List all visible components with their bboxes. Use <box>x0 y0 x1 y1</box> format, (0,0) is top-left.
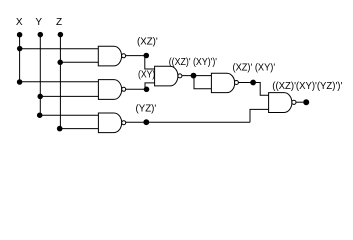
nand gate G4 second level <box>155 66 178 86</box>
node final output dot <box>303 99 309 105</box>
junction dot (XY)' <box>144 87 150 93</box>
junction dot Y/G2 <box>37 94 43 100</box>
wire X to gate G1 input A <box>20 48 99 50</box>
wire G5 output down into gate G6 input A <box>260 83 268 96</box>
wire X vertical <box>19 35 21 82</box>
wire Z vertical <box>59 35 61 129</box>
svg-text:Y: Y <box>35 17 42 28</box>
wire Z to gate G3 input B <box>60 128 98 130</box>
junction dot X/G2 <box>17 79 23 85</box>
wire (YZ)' up into gate G6 input B <box>250 109 269 122</box>
node Y terminal dot <box>38 32 44 38</box>
wire G5 output <box>238 82 260 84</box>
nand gate G6 third level <box>269 93 292 113</box>
svg-text:(XZ)': (XZ)' <box>137 36 158 47</box>
wire Y to gate G3 input A <box>40 114 98 116</box>
junction dot X/G1 <box>17 46 23 52</box>
svg-text:((XZ)' (XY)')': ((XZ)' (XY)')' <box>169 57 217 68</box>
node X terminal dot <box>17 32 23 38</box>
wire G2 output (XY)' <box>126 88 147 90</box>
gate G6 bubble <box>292 100 296 104</box>
wire G4 output to gate G5 input A <box>182 75 212 77</box>
junction dot Z/G3 <box>57 126 63 132</box>
svg-text:X: X <box>16 17 23 28</box>
svg-text:(YZ)': (YZ)' <box>136 104 157 115</box>
wire G6 output <box>296 101 303 103</box>
wire Y vertical <box>39 35 41 115</box>
junction dot G4 output <box>191 73 197 79</box>
gate G1 bubble <box>122 54 126 58</box>
wire (XY)' up into gate G4 input B <box>145 83 155 89</box>
junction dot Y/G3 <box>37 112 43 118</box>
gate G3 bubble <box>122 121 126 125</box>
wire G1 output (XZ)' <box>126 55 147 57</box>
nand gate G2 (X,Y) <box>98 80 121 100</box>
svg-text:(XY)': (XY)' <box>138 70 157 81</box>
junction dot (XZ)' <box>144 53 150 59</box>
gate G5 bubble <box>234 81 238 85</box>
svg-text:((XZ)'(XY)'(YZ)')': ((XZ)'(XY)'(YZ)')' <box>272 81 342 92</box>
nand gate G1 (X,Z) <box>98 46 121 66</box>
wire G3 output (YZ)' long run <box>126 121 250 123</box>
wire Z to gate G1 input B <box>60 61 98 63</box>
gate G2 bubble <box>122 87 126 91</box>
junction dot Z/G1 <box>57 60 63 66</box>
gate G4 bubble <box>178 74 182 78</box>
wire Y to gate G2 input B <box>40 95 98 97</box>
svg-text:Z: Z <box>56 17 62 28</box>
junction dot (YZ)' <box>143 119 149 125</box>
nand gate G3 (Y,Z) <box>98 113 121 133</box>
node Z terminal dot <box>58 32 64 38</box>
wire X to gate G2 input A <box>20 81 99 83</box>
nand gate G5 inverter <box>211 73 234 92</box>
svg-text:(XZ)' (XY)': (XZ)' (XY)' <box>233 62 276 73</box>
wire loop G4 output down to gate G5 input B <box>194 76 211 89</box>
wire (XZ)' down into gate G4 input A <box>145 56 155 69</box>
junction dot G5 output <box>250 80 256 86</box>
